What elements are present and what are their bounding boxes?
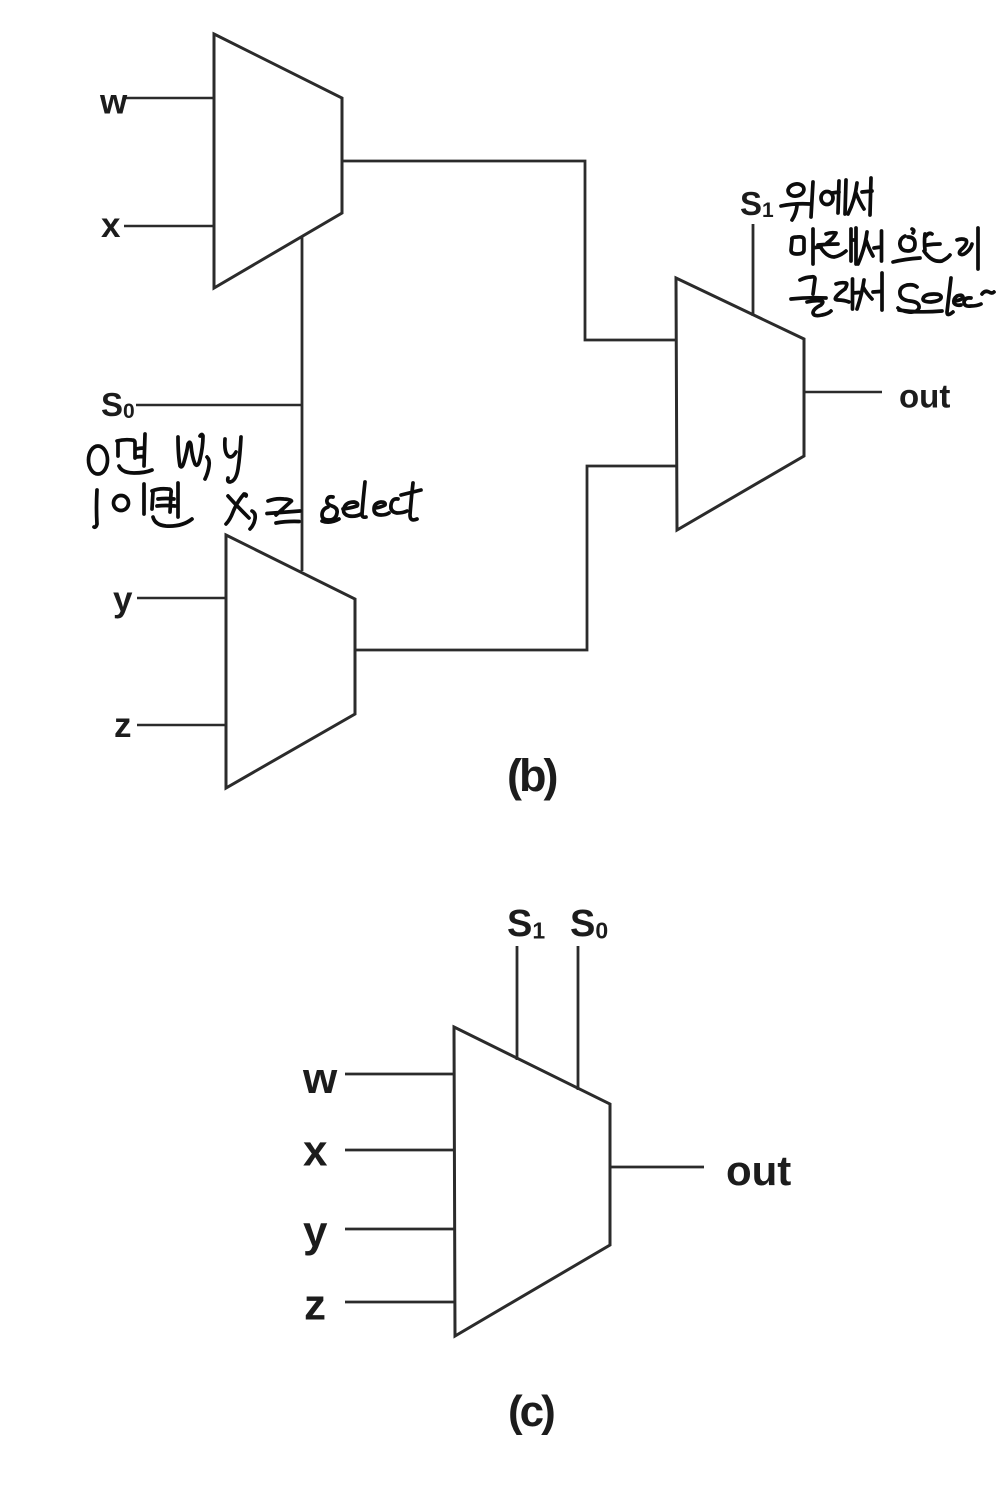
wire S1 select — [516, 946, 519, 1060]
wire x input — [124, 225, 214, 228]
mux U1 (w/x 2:1 mux) — [214, 34, 342, 288]
svg-text:w: w — [302, 1054, 338, 1103]
wire w input — [345, 1073, 454, 1076]
svg-text:x: x — [303, 1127, 328, 1176]
wire y input — [345, 1228, 454, 1231]
wire S0 horizontal — [136, 404, 302, 407]
svg-text:y: y — [113, 580, 133, 619]
svg-text:x: x — [101, 206, 121, 245]
wire S0 select — [577, 946, 580, 1090]
wire z input — [137, 724, 226, 727]
annotation line: 0면 W,y — [89, 434, 242, 482]
wire U1 output to U3 upper input — [342, 161, 676, 340]
wire U2 output to U3 lower input — [355, 466, 676, 650]
wire z input — [345, 1301, 454, 1304]
svg-text:y: y — [303, 1208, 328, 1257]
wire out — [610, 1166, 704, 1169]
handwriting annotations, black ink — [89, 178, 995, 529]
mux U2 (y/z 2:1 mux) — [226, 535, 355, 788]
annotation line: 위에서 — [781, 178, 872, 220]
wire out — [804, 391, 882, 394]
wire y input — [137, 597, 226, 600]
svg-text:z: z — [114, 706, 132, 745]
wire w input — [126, 97, 214, 100]
svg-text:(b): (b) — [507, 750, 556, 801]
wire x input — [345, 1149, 454, 1152]
svg-text:z: z — [304, 1281, 326, 1330]
wire S1 select — [752, 224, 755, 316]
svg-text:w: w — [99, 83, 128, 122]
mux U3 (output 2:1 mux) — [676, 278, 804, 530]
mux U4 (4:1 mux) — [454, 1027, 610, 1336]
annotation line: 아래서 오는거 — [791, 228, 978, 269]
annotation line: 1이면 X,z select — [94, 482, 421, 529]
svg-text:(c): (c) — [508, 1387, 554, 1436]
wire S0 vertical select line — [301, 236, 304, 571]
annotation line: 골라서 Selec~ — [791, 273, 994, 316]
svg-text:out: out — [726, 1147, 791, 1194]
svg-text:out: out — [899, 378, 950, 415]
